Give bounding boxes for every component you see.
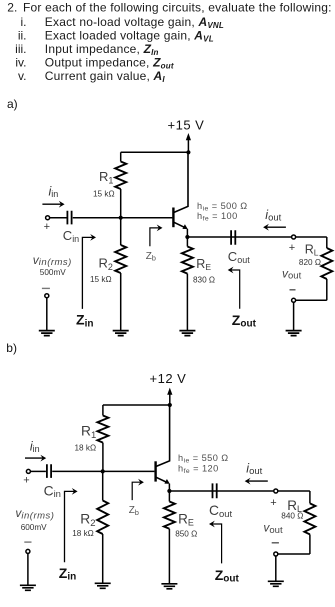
svg-text:a): a) (7, 97, 18, 111)
svg-text:18 kΩ: 18 kΩ (72, 529, 94, 538)
source terminal - a (45, 294, 49, 298)
impedance arrow Z_in b (65, 491, 75, 562)
svg-text:+: + (289, 242, 295, 254)
capacitor Cout b (213, 483, 217, 498)
ground R2 a (113, 331, 129, 336)
resistor RE b (168, 491, 170, 502)
arrow i_in b (25, 457, 43, 459)
node collector rail b (168, 403, 172, 407)
svg-text:ii.: ii. (18, 29, 27, 43)
node base a (119, 216, 123, 220)
svg-text:600mV: 600mV (21, 523, 47, 532)
capacitor Cin b (47, 464, 51, 478)
svg-text:850 Ω: 850 Ω (175, 529, 197, 538)
input terminal + b (26, 469, 30, 473)
minus sign source b (24, 541, 31, 543)
transistor Q1 emitter (174, 222, 186, 228)
wire terminal to Cin a (50, 217, 67, 219)
input terminal + a (46, 216, 50, 220)
wire output to ground a (293, 302, 295, 330)
svg-text:+: + (44, 221, 50, 233)
arrow i_out a (266, 226, 286, 228)
wire output to ground b (275, 556, 277, 581)
ground source a (39, 331, 55, 336)
minus sign source a (42, 287, 50, 289)
ground R2 b (95, 583, 111, 588)
svg-text:Current gain value, AI: Current gain value, AI (45, 69, 166, 84)
impedance arrow Z_out b (212, 524, 222, 563)
svg-text:500mV: 500mV (40, 268, 66, 277)
svg-text:830 Ω: 830 Ω (193, 275, 215, 284)
wire to RL a (296, 236, 327, 238)
transistor Q2 base bar (154, 461, 156, 481)
resistor RL a (326, 237, 328, 248)
transistor Q1 base bar (172, 208, 174, 228)
output terminal - b (274, 552, 278, 556)
output terminal - a (292, 298, 296, 302)
svg-text:820 Ω: 820 Ω (299, 258, 321, 267)
+12 V supply arrow (169, 394, 171, 405)
ground output b (268, 581, 284, 586)
output terminal + b (274, 489, 278, 493)
transistor Q2 emitter (156, 477, 168, 483)
svg-text:iv.: iv. (15, 56, 26, 70)
svg-text:+15 V: +15 V (168, 118, 205, 133)
wire emitter to output a (187, 236, 291, 238)
svg-text:+12 V: +12 V (150, 371, 187, 386)
resistor RL b (309, 491, 311, 503)
wire source to ground b (27, 553, 29, 585)
capacitor Cout a (231, 230, 235, 245)
node emitter b (167, 489, 171, 493)
wire RL bottom a (296, 299, 327, 301)
output terminal + a (292, 235, 296, 239)
svg-text:+: + (270, 497, 276, 509)
wire RL bottom b (278, 553, 310, 555)
+15 V supply arrow (187, 139, 189, 152)
wire top rail b (103, 404, 170, 406)
svg-text:15 kΩ: 15 kΩ (93, 189, 115, 198)
svg-text:i.: i. (21, 15, 27, 29)
impedance arrow Z_in a (82, 237, 93, 309)
wire source to ground a (46, 298, 48, 331)
impedance arrow Z_b a (150, 228, 160, 246)
impedance arrow Z_b b (132, 482, 141, 500)
wire emitter to output b (169, 490, 273, 492)
ground source b (20, 585, 36, 590)
svg-text:v.: v. (18, 69, 26, 83)
resistor R2 a (120, 218, 122, 245)
impedance arrow Z_out a (231, 270, 240, 309)
arrow i_out b (248, 480, 268, 482)
minus sign output a (290, 289, 296, 291)
svg-text:15 kΩ: 15 kΩ (90, 275, 112, 284)
resistor R1 b (102, 405, 104, 416)
resistor RE a (186, 237, 188, 247)
capacitor Cin a (67, 211, 71, 225)
svg-text:For each of the following circ: For each of the following circuits, eval… (23, 1, 332, 15)
node collector rail a (186, 150, 190, 154)
node base b (101, 469, 105, 473)
wire base b (52, 470, 154, 472)
svg-text:iii.: iii. (15, 42, 26, 56)
ground output a (286, 331, 302, 336)
transistor Q1 collector (174, 152, 188, 212)
wire terminal to Cin b (30, 470, 46, 472)
svg-text:18 kΩ: 18 kΩ (75, 443, 97, 452)
svg-text:2.: 2. (7, 1, 17, 15)
source terminal - b (26, 549, 30, 553)
minus sign output b (272, 542, 279, 544)
resistor R1 a (120, 152, 122, 161)
wire base a (73, 217, 173, 219)
transistor Q2 collector (156, 405, 169, 466)
svg-text:840 Ω: 840 Ω (281, 512, 303, 521)
svg-text:+: + (23, 475, 29, 487)
wire top rail a (121, 151, 189, 153)
resistor R2 b (102, 471, 104, 500)
arrow i_in a (42, 203, 61, 205)
ground RE a (179, 331, 195, 336)
ground RE b (161, 584, 177, 589)
wire to RL b (278, 490, 310, 492)
node emitter a (185, 235, 189, 239)
svg-text:b): b) (6, 341, 17, 355)
